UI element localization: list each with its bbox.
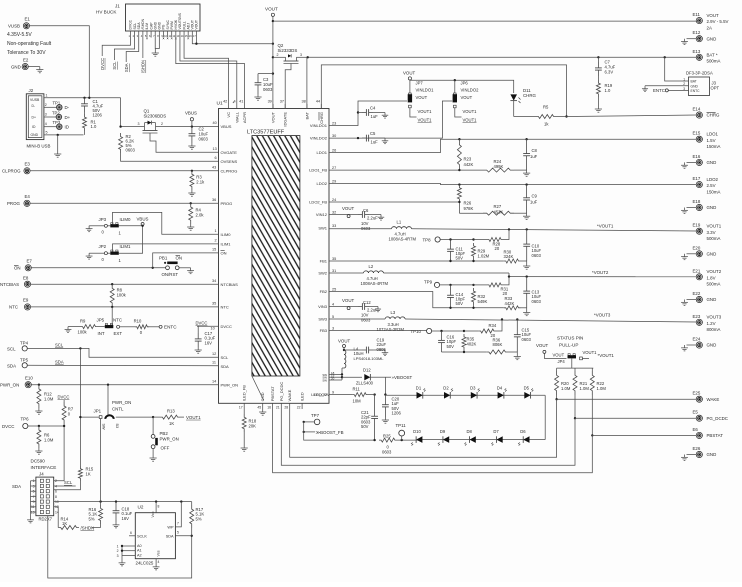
test point TP11 [396,423,407,440]
wire J2 pin5 GND [44,131,84,151]
svg-text:806K: 806K [493,342,503,347]
svg-text:0603: 0603 [199,137,209,142]
svg-text:5: 5 [332,315,334,319]
wire J4 pin13 SDA loop [48,516,192,578]
svg-text:11: 11 [212,361,216,365]
svg-text:NTC: NTC [113,318,122,323]
svg-text:L3: L3 [391,310,396,315]
terminal E17 LDO2 [693,176,721,194]
svg-text:D-: D- [32,104,36,108]
wire SW1 rail VOUT1 [329,224,696,232]
resistor R6 1.0M [35,426,54,454]
connector J1 HV BUCK [96,4,200,38]
svg-text:E12: E12 [693,30,701,35]
svg-text:4: 4 [233,100,235,104]
resistor R27 453K [459,202,526,215]
wire VOUT to E11 [273,20,696,22]
terminal E18 GND [681,199,716,213]
svg-text:500mA: 500mA [707,282,721,287]
resistor R21 1.0M [573,368,589,419]
svg-text:ILIM1: ILIM1 [221,242,232,247]
svg-text:TP10: TP10 [411,329,422,334]
svg-text:2.1k: 2.1k [196,180,205,185]
svg-text:39: 39 [268,100,272,104]
svg-text:MINI-B USB: MINI-B USB [27,144,51,149]
terminal E11 VOUT [693,12,729,30]
svg-text:SDA: SDA [55,359,64,364]
wire R2 to OVSENS [121,153,219,161]
svg-text:BAT: BAT [691,80,697,84]
svg-text:E14: E14 [693,107,701,112]
svg-text:TP11: TP11 [396,423,407,428]
svg-text:VBUS: VBUS [137,216,149,221]
net VBUS label [185,111,197,127]
svg-text:22: 22 [297,406,301,410]
net VOUT at VIN12 [329,206,358,217]
capacitor C7 4.7uF [595,57,616,76]
svg-text:E6: E6 [693,427,699,432]
capacitor C8 1uF [523,139,538,176]
svg-text:1206: 1206 [392,411,402,416]
wire J4 pin12 to R14 [54,507,59,528]
svg-text:Tolerance To 30V: Tolerance To 30V [7,50,46,56]
resistor R30 324K [504,249,527,263]
LED D5 [524,385,534,398]
svg-text:VOUT1: VOUT1 [583,350,598,355]
svg-text:/SHDN: /SHDN [141,60,146,73]
svg-text:1.0M: 1.0M [561,386,571,391]
svg-text:SDA: SDA [12,484,21,489]
svg-text:DVCC: DVCC [2,424,14,429]
svg-text:JP6: JP6 [461,81,469,86]
svg-text:1.8V: 1.8V [707,275,716,280]
svg-text:1: 1 [46,94,48,98]
wire JP1 SW to SCL branch [80,417,99,466]
svg-text:9: 9 [33,500,35,504]
capacitor C9 1uF [523,185,538,220]
U1 top pin labels [223,100,324,127]
capacitor C6 2.2uF [358,208,384,231]
svg-text:VOUT1: VOUT1 [707,224,722,229]
svg-text:3: 3 [45,113,47,117]
svg-text:23: 23 [332,122,336,126]
svg-text:8: 8 [55,495,57,499]
wire LDO1 to E15 [329,138,696,153]
svg-text:VBUS: VBUS [221,124,232,129]
terminal E2 GND [11,58,29,70]
resistor R11 10M [352,387,374,404]
svg-text:549K: 549K [478,299,488,304]
wire J1 SCL net [112,38,134,70]
wire U2 SDA [175,531,191,536]
svg-text:JP1: JP1 [94,409,102,414]
resistor R5 1k [514,105,567,127]
svg-text:D10: D10 [413,429,421,434]
wire LDO2 to E17 [329,183,696,185]
svg-text:1.0: 1.0 [605,88,611,93]
wire J1 SDA net [124,38,139,73]
svg-text:SCL: SCL [112,61,117,70]
wire J1 DVCC net [100,38,131,70]
resistor R8 100k [110,284,126,307]
svg-text:VIN12: VIN12 [316,212,328,217]
svg-text:SW1: SW1 [318,226,327,231]
test point TP9 [424,279,475,287]
terminal E23 VOUT3 [693,314,722,332]
svg-text:Vss: Vss [157,550,161,556]
svg-text:DVCC: DVCC [196,320,208,325]
svg-text:PBSTAT: PBSTAT [707,433,724,438]
svg-text:IDGATE: IDGATE [283,112,288,127]
resistor R4 2.0k [187,203,204,230]
terminal E8 NTCBIAS [0,276,31,288]
wire DVCC to J4 pin2 [54,424,66,481]
ground J2 [54,151,61,157]
wire FB1 [329,260,504,262]
wire SW2 rail VOUT2 [329,270,696,278]
wire LDO1_FB [329,169,461,171]
wire U2 SCLK [129,531,135,536]
svg-text:2.2uF: 2.2uF [367,216,378,221]
resistor R33 442K [504,296,527,310]
svg-text:D4: D4 [497,385,503,390]
svg-text:CHRG: CHRG [523,93,537,98]
svg-text:2.2uF: 2.2uF [367,308,378,313]
net DVCC to R7 [58,394,70,402]
svg-text:D5: D5 [524,385,530,390]
test point TP10 [411,328,442,333]
svg-text:PB2: PB2 [160,431,169,436]
svg-text:SW3: SW3 [318,317,327,322]
terminal E25 WAKE [693,391,720,403]
svg-text:6: 6 [130,531,132,535]
test point TP8 [423,237,475,242]
wire ILIM0 to U1 [113,212,219,234]
svg-text:5%: 5% [196,516,202,521]
resistor R15 1K [54,466,94,490]
svg-text:ILIM0: ILIM0 [120,217,132,222]
net VBUS at JP3 [119,216,149,253]
svg-text:26: 26 [332,149,336,153]
svg-text:*VOUT1: *VOUT1 [597,224,614,229]
wire U2 Vcc [156,502,159,513]
svg-text:VOUT: VOUT [403,70,416,75]
wire ON to U1 [153,248,219,268]
svg-text:VIN3: VIN3 [318,304,328,309]
wire NTCBIAS [31,279,219,285]
svg-text:WAKE: WAKE [287,389,292,401]
svg-text:6: 6 [215,156,217,160]
svg-text:PROG: PROG [7,201,21,206]
wire J2 pin1 VBUS [44,94,121,99]
svg-text:E21: E21 [693,268,701,273]
svg-text:1.02M: 1.02M [478,253,490,258]
terminal E26 GND [681,446,716,460]
svg-text:SW2: SW2 [318,271,327,276]
svg-text:D6: D6 [520,429,526,434]
capacitor C4 1uF [358,106,388,119]
svg-text:VOUT1: VOUT1 [186,415,201,420]
svg-text:500mA: 500mA [707,59,721,64]
wire U2 Vss ground [153,559,160,570]
svg-text:LED_OV: LED_OV [314,392,330,397]
svg-text:E2: E2 [23,58,29,63]
wire J4 left pins to ground [12,481,36,523]
pushbutton PB2 PWR_ON [150,417,179,461]
jumper JP7 VINLDO1 [408,81,434,123]
svg-text:JP5: JP5 [97,318,105,323]
svg-text:TP8: TP8 [423,237,432,242]
resistor R14 1K [58,517,94,531]
svg-text:21: 21 [276,406,280,410]
svg-text:16: 16 [267,406,271,410]
capacitor C20 1uF [382,395,402,424]
svg-text:E17: E17 [693,176,701,181]
wire J1 VOUT pins to VOUT net [192,38,274,45]
wire J1 FULL to U1 [184,38,228,109]
wire J1 HVOK to U1 [176,38,245,109]
svg-text:GND: GND [707,251,717,256]
capacitor C3 10uF [254,74,273,101]
svg-text:1K: 1K [62,521,67,526]
svg-text:D3: D3 [470,385,476,390]
svg-text:SDA: SDA [7,363,16,368]
svg-text:10M: 10M [353,399,362,404]
svg-text:4: 4 [158,560,160,564]
svg-text:1008AS-4R7M: 1008AS-4R7M [389,237,417,242]
svg-text:EXT: EXT [114,331,123,336]
inductor L4 10uH [344,347,384,369]
svg-text:31: 31 [332,269,336,273]
svg-text:E16: E16 [693,154,701,159]
svg-text:30: 30 [332,134,336,138]
svg-text:VINLDO2: VINLDO2 [461,88,480,93]
svg-text:D2: D2 [443,385,449,390]
svg-text:ENTC: ENTC [164,325,177,330]
svg-text:*VOUT3: *VOUT3 [594,313,611,318]
net VOUT at VIN3 [329,298,358,309]
svg-text:JP3: JP3 [99,217,107,222]
svg-text:11: 11 [31,505,35,509]
svg-text:E4: E4 [25,194,31,199]
svg-text:9: 9 [332,391,334,395]
terminal E7 ON [14,259,32,271]
ground J3 GND pin [642,86,689,92]
svg-text:GND: GND [691,84,699,88]
svg-text:ILED_FB: ILED_FB [242,385,247,402]
resistor R17 5.1K [190,502,205,537]
svg-text:E11: E11 [693,12,701,17]
svg-text:2: 2 [45,103,47,107]
wire BAT rail to E13 [307,56,697,108]
svg-text:1uF: 1uF [530,154,538,159]
svg-text:SCL: SCL [64,480,73,485]
resistor R1 1.0 [83,112,97,135]
svg-text:DVCC: DVCC [100,58,105,70]
svg-text:35: 35 [212,302,216,306]
svg-text:BAT *: BAT * [707,52,718,57]
transistor Q1 Si2306BDS [138,109,167,134]
LED D8 [464,429,475,445]
svg-text:CNTL: CNTL [112,407,124,412]
svg-text:1: 1 [215,229,217,233]
svg-text:1uF: 1uF [371,139,379,144]
resistor R24 499K [459,159,526,172]
terminal E22 GND [681,291,716,305]
svg-text:3: 3 [33,484,35,488]
resistor R13 1K [153,409,201,427]
svg-text:5: 5 [33,490,35,494]
svg-text:VOUT1: VOUT1 [463,118,478,123]
svg-text:VOUT2: VOUT2 [707,269,722,274]
svg-text:5%: 5% [89,516,95,521]
jumper JP2 ILIM1 [86,244,131,263]
svg-text:3: 3 [117,554,119,558]
svg-text:FB3: FB3 [320,328,328,333]
jumper JP5 NTC INT/EXT [97,307,123,336]
terminal E1 VUSB [8,17,30,29]
svg-text:GND: GND [11,64,21,69]
svg-text:PWR_ON: PWR_ON [112,400,131,405]
svg-text:E13: E13 [693,49,701,54]
svg-text:GND: GND [707,343,717,348]
svg-text:E10: E10 [25,376,33,381]
svg-text:R5: R5 [543,105,549,110]
terminal E20 GND [681,245,716,259]
svg-text:TP9: TP9 [424,279,433,284]
svg-text:JP4: JP4 [558,359,566,364]
test point TP1 D- [44,101,70,111]
svg-text:VOUT1: VOUT1 [418,118,433,123]
wire J1 /SHDN net [141,38,146,74]
svg-text:FB2: FB2 [320,289,328,294]
svg-text:LDO2_FB: LDO2_FB [309,200,327,205]
svg-text:R27: R27 [494,204,502,209]
svg-text:2: 2 [215,239,217,243]
svg-text:VBUS: VBUS [185,111,197,116]
svg-text:TP6: TP6 [21,417,30,422]
svg-text:SW: SW [101,424,105,431]
svg-text:PWR_ON: PWR_ON [0,383,19,388]
svg-text:E15: E15 [693,131,701,136]
capacitor C21 22pF [361,395,378,441]
svg-text:1206: 1206 [93,113,103,118]
svg-text:STATUS PIN: STATUS PIN [557,336,583,341]
svg-text:3: 3 [300,53,302,57]
jumper JP4 [558,350,615,364]
svg-text:TP7: TP7 [311,413,320,418]
svg-text:GND: GND [260,392,265,401]
no-connect marks J1 [146,38,189,40]
wire VUSB from E1 [30,26,90,98]
wire BAT to J3 [665,57,689,81]
svg-text:BAT: BAT [304,111,309,119]
svg-text:CLPROG: CLPROG [2,169,21,174]
svg-text:27: 27 [332,166,336,170]
svg-text:R9: R9 [80,319,86,324]
wire U2 address pins [117,545,136,566]
svg-text:SCL: SCL [7,346,16,351]
svg-text:1.0M: 1.0M [580,386,590,391]
wire ILED pin stub [301,403,303,409]
terminal E13 BAT [693,49,721,64]
capacitor C12 2.2uF [358,300,381,323]
svg-text:VOUT: VOUT [536,343,549,348]
svg-text:24LC025: 24LC025 [136,561,154,566]
svg-text:14: 14 [212,379,216,383]
svg-text:D+: D+ [32,116,36,120]
wire VBUS rail [119,98,218,128]
svg-text:VOUT: VOUT [342,206,355,211]
svg-text:NTC: NTC [221,305,229,310]
svg-text:»VBOOST: »VBOOST [392,375,413,380]
svg-text:37: 37 [280,100,284,104]
terminal E3 CLPROG [2,162,30,174]
terminal E10 PWR_ON [0,376,33,388]
resistor R19 1.0 [595,76,613,112]
svg-text:VOUT: VOUT [271,111,276,123]
wire U2 WP [175,502,181,527]
svg-text:E3: E3 [25,162,31,167]
wire LED top row [385,395,545,439]
svg-text:E23: E23 [693,314,701,319]
U1 bottom pin labels [239,382,330,410]
wire J4 SCL stub [54,480,76,486]
resistor R2 6.2K [119,133,136,153]
svg-text:VUSB: VUSB [8,24,20,29]
svg-text:50V: 50V [456,256,464,261]
resistor R16 5.1K [89,502,103,528]
svg-text:0603: 0603 [361,226,371,231]
svg-text:E26: E26 [693,446,701,451]
svg-text:R34: R34 [489,323,497,328]
svg-text:D1: D1 [416,385,422,390]
svg-text:OVGATE: OVGATE [221,150,238,155]
svg-text:VINLDO1: VINLDO1 [416,88,435,93]
svg-text:29: 29 [332,180,336,184]
svg-text:1.2V: 1.2V [707,321,716,326]
svg-text:45: 45 [257,406,261,410]
LED D2 [443,385,453,398]
svg-text:10: 10 [211,327,215,331]
svg-text:D+: D+ [65,115,71,120]
LED D10 [411,429,422,445]
svg-text:ILIM1: ILIM1 [120,244,132,249]
svg-text:LDO2: LDO2 [317,181,328,186]
svg-text:PROG: PROG [221,201,233,206]
svg-text:2: 2 [117,549,119,553]
svg-text:ILED: ILED [300,392,305,401]
resistor R35 402K [462,334,476,352]
svg-text:2: 2 [277,53,279,57]
svg-text:SCL: SCL [55,342,64,347]
capacitor C19 22uF [344,338,388,356]
svg-text:C4: C4 [370,106,376,111]
wire LED bottom row [419,439,545,441]
svg-text:1.0: 1.0 [91,124,97,129]
svg-text:0603: 0603 [382,450,392,455]
svg-text:Vcc: Vcc [151,511,155,517]
jumper JP1 PWR_ON CNTL [94,400,155,430]
capacitor C2 10uF [189,127,209,144]
svg-text:2.0k: 2.0k [196,213,205,218]
capacitor C14 10pF [447,285,465,308]
svg-text:4: 4 [332,303,334,307]
svg-text:DF3-3P-2DSA: DF3-3P-2DSA [686,71,713,76]
wire SW boost pins [329,368,362,380]
svg-text:INTERFACE: INTERFACE [31,465,57,470]
svg-text:FB1: FB1 [320,259,328,264]
